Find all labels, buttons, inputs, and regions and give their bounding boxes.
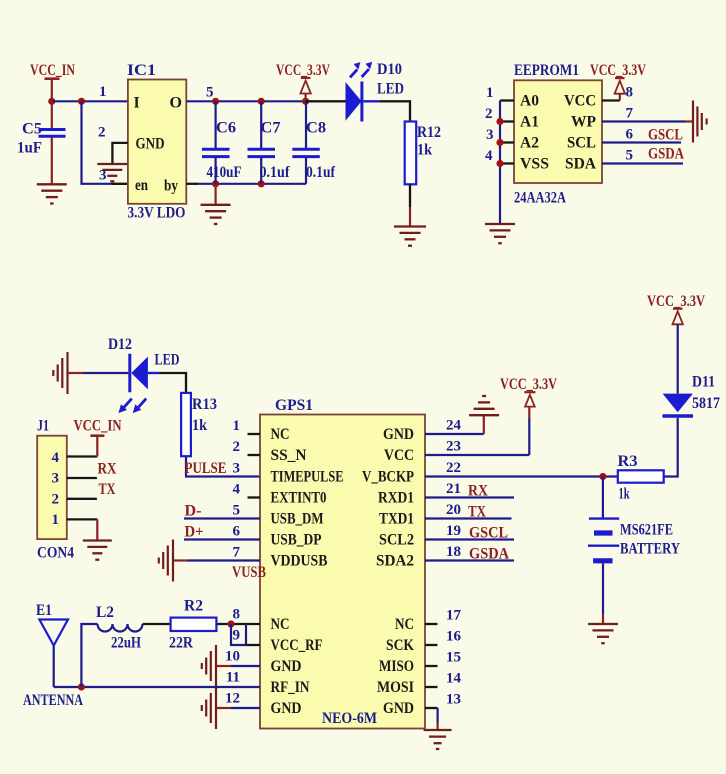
svg-text:23: 23 (446, 439, 461, 455)
svg-text:R13: R13 (192, 396, 217, 413)
wire R12 to ground (409, 184, 411, 207)
svg-text:WP: WP (571, 114, 597, 131)
svg-text:13: 13 (446, 692, 461, 708)
wire R2 to pin 8 (216, 623, 260, 625)
wire en branch (82, 101, 112, 184)
svg-text:3: 3 (486, 127, 494, 143)
svg-text:C7: C7 (261, 120, 281, 137)
svg-text:VSS: VSS (520, 156, 549, 173)
svg-text:TX: TX (468, 504, 486, 521)
wire R13 to TIMEPULSE (186, 456, 260, 476)
svg-text:I: I (134, 95, 140, 112)
wire D12 to R13 (159, 373, 186, 393)
svg-text:VCC: VCC (384, 447, 414, 464)
svg-text:22: 22 (446, 460, 461, 476)
wire VCC to D11 (677, 324, 679, 393)
svg-text:VCC_3.3V: VCC_3.3V (500, 376, 557, 393)
svg-text:NC: NC (271, 616, 290, 633)
svg-text:5: 5 (233, 503, 241, 519)
svg-text:USB_DP: USB_DP (271, 532, 322, 549)
svg-text:4: 4 (52, 450, 60, 466)
svg-text:1: 1 (486, 85, 494, 101)
svg-text:NC: NC (395, 616, 414, 633)
svg-text:VCC_3.3V: VCC_3.3V (647, 293, 705, 310)
svg-text:MOSI: MOSI (377, 679, 414, 696)
svg-text:24AA32A: 24AA32A (514, 190, 566, 207)
wire SCL2 (425, 538, 514, 540)
svg-text:O: O (170, 95, 182, 112)
svg-text:J1: J1 (37, 418, 49, 435)
svg-text:2: 2 (52, 492, 60, 508)
svg-text:GSDA: GSDA (648, 146, 684, 163)
svg-text:D+: D+ (185, 524, 204, 541)
wire LED D10 to R12 (379, 101, 410, 121)
svg-text:7: 7 (233, 545, 241, 561)
svg-text:GND: GND (271, 658, 302, 675)
svg-text:5: 5 (626, 148, 634, 164)
svg-text:2: 2 (485, 106, 493, 122)
svg-text:VCC_RF: VCC_RF (271, 637, 323, 654)
svg-text:PULSE: PULSE (185, 460, 227, 477)
wire IC1 GND pin to ground (112, 143, 128, 163)
svg-text:NC: NC (271, 426, 290, 443)
svg-text:2: 2 (233, 439, 241, 455)
svg-text:15: 15 (446, 650, 461, 666)
wire GPS pin13 to ground (425, 707, 438, 709)
pin stubs GPS unconnected (248, 433, 261, 435)
wire RXD1 (425, 496, 514, 498)
svg-text:SCL2: SCL2 (379, 532, 414, 549)
pin stubs J1 (67, 455, 98, 457)
wire GPS pin24 to ground (425, 433, 484, 435)
svg-text:C6: C6 (216, 120, 236, 137)
svg-text:22R: 22R (169, 635, 193, 652)
svg-text:GND: GND (136, 136, 165, 153)
wire GPS pin23 to VCC (425, 454, 529, 456)
wire SDA2 (425, 559, 514, 561)
svg-text:5817: 5817 (692, 395, 720, 412)
LED D10 arrows (350, 70, 357, 78)
wire battery to ground (602, 563, 604, 614)
svg-text:GND: GND (271, 700, 302, 717)
svg-text:22uH: 22uH (111, 635, 141, 652)
svg-text:LED: LED (155, 352, 180, 369)
node EEPROM pin4 (496, 160, 503, 167)
svg-text:SCK: SCK (386, 637, 414, 654)
ground at IC1 pin 2 (97, 163, 127, 165)
ground at WP (rotated) (692, 101, 694, 143)
svg-text:D12: D12 (108, 336, 132, 353)
svg-text:GSDA: GSDA (469, 546, 509, 563)
svg-text:9: 9 (233, 628, 241, 644)
svg-text:410uF: 410uF (207, 164, 242, 181)
node VCC_3.3V rail (302, 98, 309, 105)
svg-text:1uF: 1uF (17, 140, 42, 157)
node EEPROM pin2 (496, 118, 503, 125)
node V_BCKP battery junction (599, 473, 606, 480)
wire L2 to R2 (143, 623, 171, 625)
svg-text:en: en (135, 177, 148, 194)
svg-text:SS_N: SS_N (271, 447, 307, 464)
ground under R12 (394, 225, 426, 227)
wire V_BCKP to R3 (425, 475, 618, 477)
svg-text:RX: RX (468, 483, 488, 500)
svg-text:D11: D11 (692, 374, 715, 391)
svg-text:5: 5 (206, 85, 214, 101)
svg-text:VDDUSB: VDDUSB (271, 553, 328, 570)
svg-text:RX: RX (98, 461, 117, 478)
svg-text:21: 21 (446, 481, 461, 497)
node EEPROM pin3 (496, 139, 503, 146)
svg-text:18: 18 (446, 544, 461, 560)
node C6 bottom (212, 180, 219, 187)
svg-text:MISO: MISO (379, 658, 414, 675)
svg-text:2: 2 (98, 125, 106, 141)
ground under GPS pin13 (424, 729, 452, 731)
svg-text:VCC_3.3V: VCC_3.3V (276, 62, 330, 79)
wire pin 9 loop (231, 624, 246, 645)
svg-text:IC1: IC1 (127, 62, 156, 79)
svg-text:1: 1 (52, 512, 60, 528)
svg-text:A0: A0 (520, 93, 539, 110)
svg-text:14: 14 (446, 671, 462, 687)
svg-text:GND: GND (383, 700, 414, 717)
svg-text:GSCL: GSCL (648, 127, 683, 144)
wire bypass rail (186, 183, 198, 185)
node A (VCC_IN junction) (48, 98, 55, 105)
svg-text:VCC_IN: VCC_IN (74, 418, 122, 435)
svg-text:16: 16 (446, 629, 462, 645)
svg-text:GSCL: GSCL (469, 525, 508, 542)
pin stubs EEPROM left (500, 99, 514, 101)
svg-text:12: 12 (225, 691, 240, 707)
svg-text:USB_DM: USB_DM (271, 511, 324, 528)
svg-text:SCL: SCL (567, 135, 596, 152)
svg-text:1k: 1k (619, 486, 630, 503)
wire J1 pin1 to ground (96, 519, 98, 539)
svg-text:3: 3 (52, 470, 60, 486)
svg-text:8: 8 (233, 607, 241, 623)
svg-text:LED: LED (377, 81, 404, 98)
wire D11 to R3 (664, 418, 678, 477)
svg-text:3.3V LDO: 3.3V LDO (128, 205, 186, 222)
svg-text:VCC: VCC (564, 93, 596, 110)
svg-text:V_BCKP: V_BCKP (362, 469, 414, 486)
svg-text:TIMEPULSE: TIMEPULSE (271, 469, 344, 486)
ground under C5 (37, 183, 67, 185)
svg-text:1: 1 (99, 84, 107, 100)
svg-text:GPS1: GPS1 (275, 397, 313, 414)
svg-text:A2: A2 (520, 135, 539, 152)
svg-text:6: 6 (233, 524, 241, 540)
svg-text:ANTENNA: ANTENNA (23, 692, 83, 709)
svg-text:7: 7 (626, 106, 634, 122)
node C7 top (258, 98, 265, 105)
svg-text:11: 11 (226, 670, 240, 686)
ground under battery (588, 623, 618, 625)
node C7 bottom (258, 180, 265, 187)
svg-text:20: 20 (446, 502, 461, 518)
svg-text:8: 8 (626, 85, 634, 101)
svg-text:GND: GND (383, 426, 414, 443)
node C6 top (212, 98, 219, 105)
svg-text:4: 4 (485, 148, 493, 164)
svg-text:EEPROM1: EEPROM1 (514, 62, 579, 79)
svg-text:RXD1: RXD1 (378, 490, 414, 507)
wire VCC_IN to IC1 pin1 (52, 100, 128, 102)
ground at VDDUSB (rotated) (172, 540, 174, 582)
svg-text:0.1uf: 0.1uf (260, 164, 291, 181)
svg-text:VUSB: VUSB (232, 564, 266, 581)
wire IC1 output rail (186, 100, 305, 102)
svg-text:E1: E1 (36, 602, 52, 619)
svg-text:VCC_3.3V: VCC_3.3V (590, 62, 646, 79)
svg-text:TXD1: TXD1 (379, 511, 414, 528)
svg-text:1: 1 (233, 418, 241, 434)
ground at GPS pin10 (rotated) (215, 645, 217, 687)
wire antenna branch to L2 (81, 624, 97, 687)
svg-text:6: 6 (626, 127, 634, 143)
svg-text:A1: A1 (520, 114, 539, 131)
svg-text:by: by (164, 178, 178, 195)
node B (en branch junction) (78, 98, 85, 105)
svg-text:L2: L2 (96, 604, 114, 621)
svg-text:C8: C8 (306, 120, 326, 137)
wire antenna to RF_IN (54, 686, 260, 688)
svg-text:SDA: SDA (565, 156, 597, 173)
wire TXD1 (425, 517, 512, 519)
svg-text:19: 19 (446, 523, 461, 539)
svg-text:R3: R3 (618, 453, 638, 470)
svg-text:1k: 1k (417, 142, 432, 159)
wire EEPROM address bus to ground (499, 101, 501, 224)
svg-text:24: 24 (446, 418, 462, 434)
svg-text:BATTERY: BATTERY (620, 541, 680, 558)
svg-text:CON4: CON4 (37, 544, 74, 561)
svg-text:1k: 1k (192, 417, 207, 434)
wire VCC rail to LED D10 (306, 100, 346, 102)
svg-text:10: 10 (225, 649, 240, 665)
svg-text:R12: R12 (417, 124, 441, 141)
node pin8 (227, 620, 234, 627)
svg-text:3: 3 (233, 461, 241, 477)
svg-text:SDA2: SDA2 (376, 553, 414, 570)
ground at GPS pin12 (rotated) (215, 687, 217, 729)
node antenna junction (78, 683, 85, 690)
ground under EEPROM (485, 223, 515, 225)
svg-text:RF_IN: RF_IN (271, 679, 310, 696)
svg-text:D-: D- (185, 503, 202, 520)
svg-text:R2: R2 (184, 598, 203, 615)
svg-text:0.1uf: 0.1uf (306, 164, 336, 181)
svg-text:VCC_IN: VCC_IN (30, 62, 75, 79)
svg-text:4: 4 (233, 482, 241, 498)
ground above pin24 (inverted) (469, 414, 499, 416)
ground under C6 rail (215, 184, 217, 205)
svg-text:MS621FE: MS621FE (620, 522, 673, 539)
LED D12 arrows (124, 399, 132, 408)
ground under J1 (83, 539, 112, 541)
svg-text:NEO-6M: NEO-6M (322, 710, 377, 727)
svg-text:EXTINT0: EXTINT0 (271, 490, 327, 507)
ground at D12 (rotated) (66, 352, 68, 394)
svg-text:D10: D10 (377, 61, 402, 78)
svg-text:17: 17 (446, 608, 462, 624)
svg-text:TX: TX (99, 481, 116, 498)
